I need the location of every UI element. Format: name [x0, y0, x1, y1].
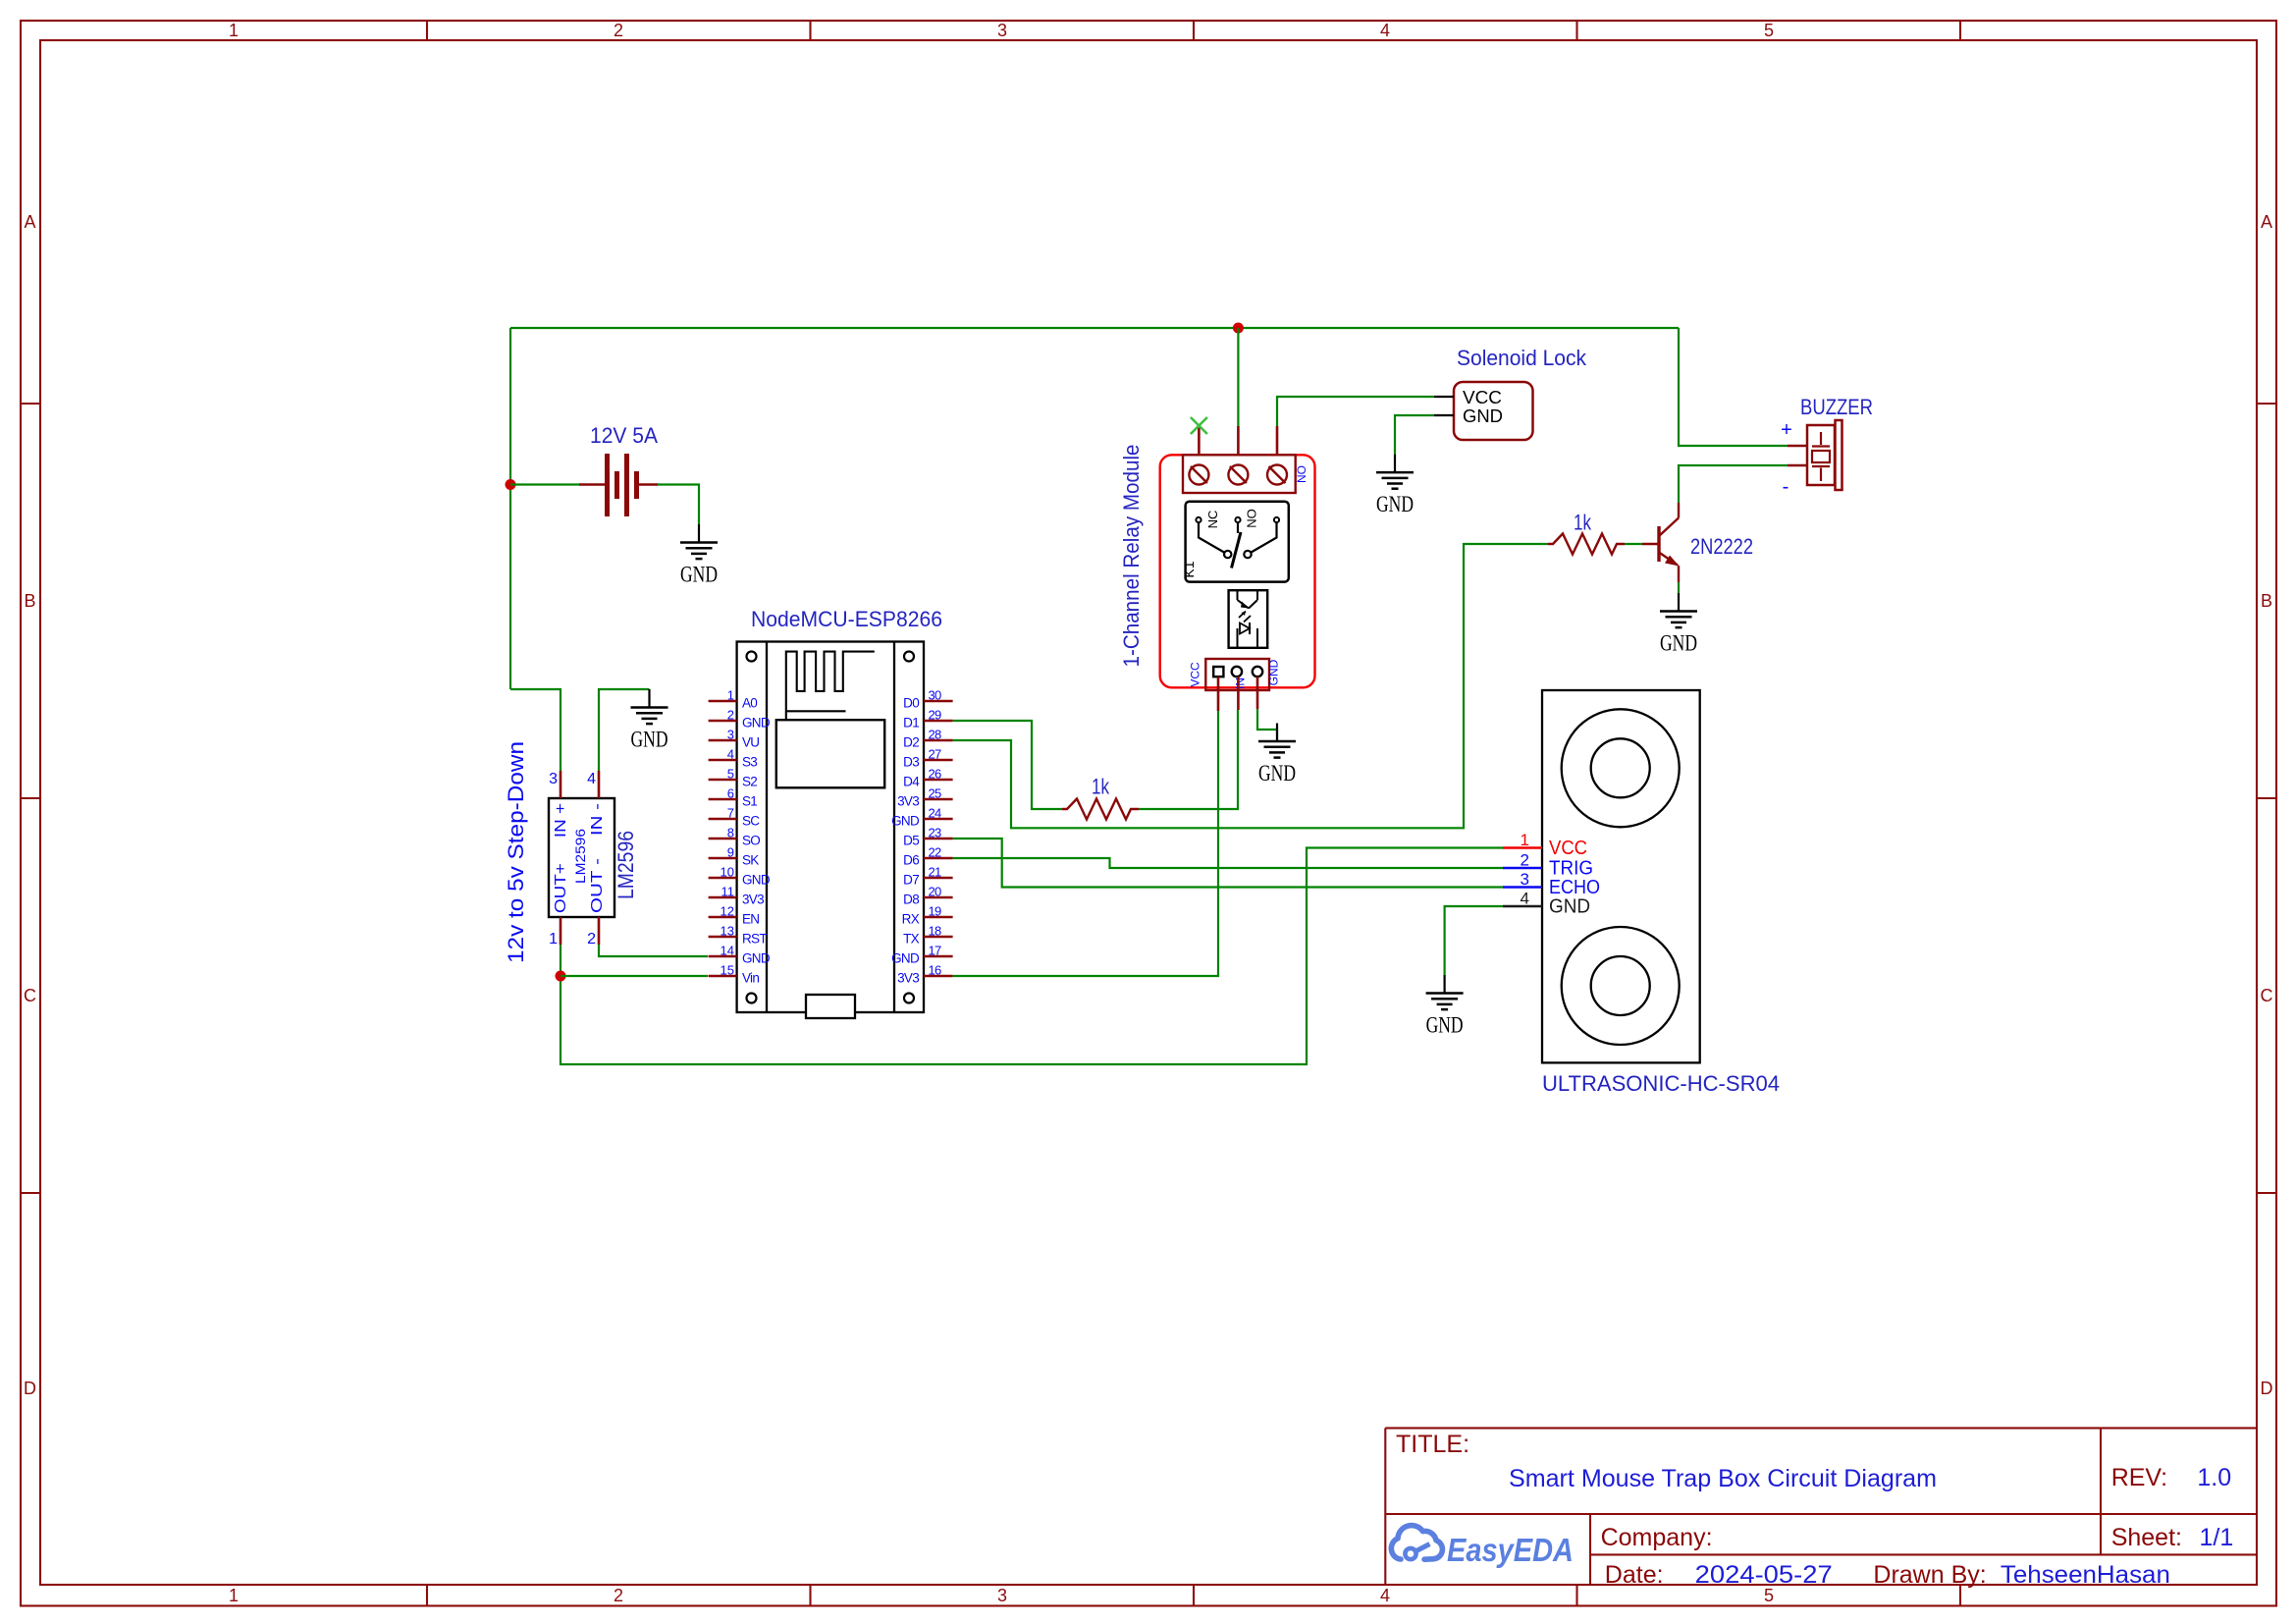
wire LM2596 OUT- to NodeMCU GND: [599, 945, 708, 956]
svg-text:30: 30: [929, 688, 942, 703]
svg-text:S3: S3: [742, 755, 757, 770]
svg-text:26: 26: [929, 767, 942, 782]
svg-text:28: 28: [929, 728, 942, 742]
wire buzzer - to collector: [1679, 465, 1788, 503]
junction battery +: [506, 479, 516, 490]
U1 pin 28 D2: [903, 728, 952, 750]
svg-text:3: 3: [997, 1586, 1007, 1605]
svg-text:C: C: [2261, 986, 2273, 1005]
svg-text:12v to 5v Step-Down: 12v to 5v Step-Down: [504, 741, 528, 963]
svg-text:2N2222: 2N2222: [1690, 534, 1753, 559]
svg-text:Solenoid Lock: Solenoid Lock: [1457, 346, 1587, 370]
svg-text:16: 16: [929, 963, 942, 978]
svg-text:4: 4: [1521, 890, 1529, 908]
svg-text:3V3: 3V3: [897, 794, 919, 809]
U1 pin 26 D4: [903, 767, 952, 789]
svg-text:1: 1: [727, 688, 734, 703]
ground ultrasonic: [1426, 975, 1464, 1038]
U1 pin 9 SK: [709, 845, 760, 868]
wire D1 to R1: [953, 721, 1062, 809]
svg-text:5: 5: [727, 767, 734, 782]
buzzer LS1: [1781, 419, 1842, 498]
svg-text:2: 2: [614, 1586, 623, 1605]
U1 pin 12 EN: [709, 904, 760, 927]
svg-text:D4: D4: [903, 775, 920, 789]
no-connect X: [1191, 417, 1207, 434]
svg-text:GND: GND: [1660, 631, 1697, 656]
svg-text:20: 20: [929, 885, 942, 899]
transistor Q1 2N2222: [1642, 503, 1753, 582]
ground transistor: [1660, 593, 1697, 656]
svg-text:2: 2: [1521, 851, 1529, 870]
svg-text:NO: NO: [1295, 465, 1308, 483]
svg-text:22: 22: [929, 845, 942, 860]
svg-text:12: 12: [721, 904, 734, 919]
relay input header: [1189, 659, 1281, 690]
junction 5V Vin: [556, 971, 566, 982]
svg-text:1k: 1k: [1092, 775, 1110, 799]
svg-text:GND: GND: [631, 728, 668, 752]
U1 pin 15 Vin: [709, 963, 760, 986]
svg-text:B: B: [2261, 591, 2272, 611]
svg-text:3: 3: [727, 728, 734, 742]
wire R2 to Q1 base: [1625, 543, 1642, 545]
U1 pin 19 RX: [902, 904, 953, 927]
U1 pin 25 3V3: [897, 786, 953, 809]
relay NC screw stub (no connect): [1198, 426, 1201, 455]
svg-text:LM2596: LM2596: [614, 831, 638, 899]
svg-text:11: 11: [721, 885, 735, 899]
svg-text:B: B: [24, 591, 35, 611]
svg-text:GND: GND: [742, 873, 771, 888]
svg-text:3: 3: [549, 771, 558, 787]
U1 pin 2 GND: [709, 708, 771, 731]
wire emitter to ground: [1678, 582, 1680, 593]
U1 pin 1 A0: [709, 688, 758, 711]
svg-text:+: +: [1781, 419, 1792, 441]
svg-text:D6: D6: [903, 853, 919, 868]
svg-text:RST: RST: [742, 932, 767, 947]
wire 12V to relay COM: [1237, 328, 1239, 426]
svg-text:GND: GND: [742, 716, 771, 731]
svg-text:7: 7: [727, 806, 734, 821]
svg-text:23: 23: [929, 826, 942, 840]
ground LM2596 IN-: [631, 689, 668, 752]
wire D5 to ECHO: [953, 839, 1503, 888]
svg-text:1.0: 1.0: [2197, 1464, 2231, 1491]
svg-text:D8: D8: [903, 893, 919, 907]
svg-text:GND: GND: [1376, 492, 1414, 516]
wire R1 to relay IN: [1139, 710, 1238, 809]
svg-text:NodeMCU-ESP8266: NodeMCU-ESP8266: [751, 607, 942, 631]
svg-text:19: 19: [929, 904, 942, 919]
svg-text:EN: EN: [742, 912, 759, 927]
wire 12V to buzzer +: [1679, 328, 1788, 446]
wire to LM2596 IN+: [510, 689, 561, 771]
svg-text:TehseenHasan: TehseenHasan: [2001, 1561, 2170, 1589]
esp shield box: [776, 720, 884, 787]
svg-text:5: 5: [1764, 21, 1774, 40]
svg-text:VCC: VCC: [1189, 662, 1202, 687]
svg-text:2: 2: [727, 708, 734, 723]
svg-text:1: 1: [549, 931, 558, 947]
relay COM stub: [1237, 426, 1240, 455]
svg-text:GND: GND: [891, 814, 920, 829]
U1 pin 23 D5: [903, 826, 952, 848]
svg-text:2: 2: [614, 21, 623, 40]
LM2596 pin 4: [598, 771, 601, 798]
wire ultrasonic GND to ground: [1445, 906, 1503, 975]
wire D2 to R2: [953, 544, 1548, 828]
U1 pin 7 SC: [709, 806, 761, 829]
wire 3V3 to relay VCC: [953, 711, 1218, 976]
wire battery - to ground: [658, 485, 699, 525]
svg-text:9: 9: [727, 845, 734, 860]
svg-text:25: 25: [929, 786, 942, 801]
relay optocoupler: [1229, 590, 1268, 648]
resistor R1 1k: [1062, 799, 1139, 820]
svg-text:S2: S2: [742, 775, 757, 789]
svg-text:5: 5: [1764, 1586, 1774, 1605]
U1 pin 24 GND: [891, 806, 953, 829]
wire 5V to Vin: [561, 975, 708, 977]
svg-text:24: 24: [929, 806, 942, 821]
svg-text:D1: D1: [903, 716, 919, 731]
U1 pin 8 SO: [709, 826, 761, 848]
relay module box: [1160, 455, 1315, 687]
svg-text:OUT - IN -: OUT - IN -: [589, 803, 606, 913]
svg-text:A: A: [24, 212, 35, 232]
LM2596 pin 2: [598, 917, 601, 945]
svg-text:A0: A0: [742, 696, 757, 711]
U3 pin 2 TRIG: [1503, 867, 1542, 870]
U3 pin 3 ECHO: [1503, 886, 1542, 889]
svg-text:TX: TX: [903, 932, 920, 947]
LM2596 pin 3: [560, 771, 562, 798]
U3 pin 1 VCC: [1503, 846, 1542, 849]
svg-text:GND: GND: [742, 951, 771, 966]
svg-text:GND: GND: [1549, 896, 1590, 918]
svg-text:ULTRASONIC-HC-SR04: ULTRASONIC-HC-SR04: [1542, 1071, 1780, 1096]
svg-text:SC: SC: [742, 814, 760, 829]
svg-text:4: 4: [1380, 21, 1390, 40]
solenoid lock module: [1434, 382, 1533, 440]
svg-text:14: 14: [721, 944, 734, 958]
svg-text:OUT+ IN +: OUT+ IN +: [553, 803, 569, 913]
U1 pin 10 GND: [709, 865, 771, 888]
svg-text:17: 17: [929, 944, 942, 958]
usb tab: [806, 995, 855, 1018]
relay screw terminal block: [1183, 455, 1308, 493]
EasyEDA logo: [1391, 1526, 1574, 1568]
U3 pin 4 GND: [1503, 905, 1542, 908]
wire relay NO to solenoid VCC: [1277, 397, 1434, 426]
svg-text:1: 1: [1521, 831, 1529, 849]
U1 pin 21 D7: [903, 865, 952, 888]
svg-text:IN: IN: [1234, 677, 1248, 689]
U1 pin 18 TX: [903, 924, 952, 947]
microcontroller U1 NodeMCU-ESP8266: [737, 607, 942, 1018]
U1 pin 27 D3: [903, 747, 952, 770]
wire +12V left drop: [509, 328, 511, 689]
U1 pin 17 GND: [891, 944, 953, 966]
svg-text:1: 1: [229, 1586, 239, 1605]
svg-text:1k: 1k: [1574, 511, 1592, 535]
svg-text:C: C: [24, 986, 36, 1005]
junction 12V relay COM: [1233, 323, 1244, 334]
svg-text:Date:: Date:: [1605, 1561, 1664, 1589]
U1 pin 3 VU: [709, 728, 760, 750]
wire LM2596 IN- to ground: [599, 689, 650, 771]
svg-text:12V 5A: 12V 5A: [590, 423, 658, 448]
U1 pin 11 3V3: [709, 885, 765, 907]
svg-text:4: 4: [1380, 1586, 1390, 1605]
svg-text:Company:: Company:: [1601, 1524, 1713, 1551]
U1 pin 20 D8: [903, 885, 952, 907]
relay NO stub: [1276, 426, 1279, 455]
svg-text:D: D: [2261, 1379, 2273, 1398]
svg-text:S1: S1: [742, 794, 757, 809]
svg-text:8: 8: [727, 826, 734, 840]
svg-text:1-Channel Relay Module: 1-Channel Relay Module: [1119, 445, 1144, 668]
svg-text:10: 10: [721, 865, 734, 880]
svg-text:D3: D3: [903, 755, 919, 770]
title block: [1385, 1428, 2257, 1589]
svg-text:D7: D7: [903, 873, 919, 888]
svg-text:REV:: REV:: [2111, 1464, 2167, 1491]
relay GND stub: [1256, 677, 1259, 709]
svg-text:D5: D5: [903, 834, 919, 848]
svg-text:Smart Mouse Trap Box Circuit D: Smart Mouse Trap Box Circuit Diagram: [1509, 1465, 1937, 1492]
svg-text:GND: GND: [1258, 761, 1296, 785]
svg-text:A: A: [2261, 212, 2272, 232]
svg-text:2024-05-27: 2024-05-27: [1695, 1561, 1833, 1589]
svg-text:18: 18: [929, 924, 942, 939]
svg-text:4: 4: [587, 771, 596, 787]
U1 pin 16 3V3: [897, 963, 953, 986]
battery BT1 12V 5A: [579, 423, 658, 516]
relay IN stub: [1237, 677, 1240, 710]
ultrasonic sensor U3 HC-SR04: [1503, 690, 1780, 1096]
regulator module U2 LM2596: [549, 771, 638, 947]
svg-text:3: 3: [1521, 870, 1529, 889]
LM2596 pin 1: [560, 917, 562, 945]
relay VCC stub: [1217, 677, 1220, 711]
svg-text:Drawn By:: Drawn By:: [1873, 1561, 1986, 1589]
svg-text:Vin: Vin: [742, 971, 759, 986]
U1 pin 22 D6: [903, 845, 952, 868]
ground relay: [1258, 724, 1296, 786]
svg-text:EasyEDA: EasyEDA: [1447, 1532, 1574, 1568]
wire battery +: [510, 483, 579, 485]
svg-text:SK: SK: [742, 853, 759, 868]
svg-text:GND: GND: [1463, 406, 1503, 426]
svg-text:29: 29: [929, 708, 942, 723]
svg-text:K1: K1: [1181, 561, 1197, 577]
resistor R2 1k: [1548, 534, 1625, 555]
svg-text:GND: GND: [1267, 659, 1281, 685]
svg-text:D0: D0: [903, 696, 919, 711]
svg-text:1/1: 1/1: [2200, 1524, 2234, 1551]
wire LM2596 OUT+ 5V: [561, 848, 1503, 1065]
svg-text:6: 6: [727, 786, 734, 801]
svg-text:3: 3: [997, 21, 1007, 40]
svg-text:SO: SO: [742, 834, 760, 848]
svg-text:Sheet:: Sheet:: [2111, 1524, 2182, 1551]
svg-text:3V3: 3V3: [742, 893, 764, 907]
svg-text:1: 1: [229, 21, 239, 40]
U1 pin 14 GND: [709, 944, 771, 966]
svg-text:4: 4: [727, 747, 734, 762]
svg-text:D2: D2: [903, 735, 919, 750]
U1 pin 4 S3: [709, 747, 758, 770]
U1 pin 13 RST: [709, 924, 768, 947]
wire D6 to TRIG: [953, 858, 1503, 868]
U1 pin 5 S2: [709, 767, 758, 789]
svg-text:NO: NO: [1245, 509, 1259, 528]
wire relay GND to ground: [1257, 709, 1277, 741]
antenna meander: [786, 652, 875, 721]
svg-text:3V3: 3V3: [897, 971, 919, 986]
svg-text:GND: GND: [680, 563, 718, 587]
svg-text:-: -: [1783, 476, 1789, 498]
svg-text:13: 13: [721, 924, 734, 939]
svg-text:D: D: [24, 1379, 36, 1398]
U1 pin 29 D1: [903, 708, 952, 731]
U1 pin 30 D0: [903, 688, 952, 711]
svg-text:BUZZER: BUZZER: [1800, 395, 1873, 419]
svg-text:GND: GND: [891, 951, 920, 966]
relay K1: [1181, 502, 1289, 582]
svg-text:GND: GND: [1426, 1013, 1464, 1038]
U1 pin 6 S1: [709, 786, 758, 809]
svg-text:VU: VU: [742, 735, 759, 750]
wire solenoid GND to ground: [1395, 415, 1434, 455]
wire +12V top rail: [510, 327, 1679, 329]
svg-text:2: 2: [587, 931, 596, 947]
svg-text:27: 27: [929, 747, 942, 762]
svg-text:15: 15: [721, 963, 734, 978]
svg-text:LM2596: LM2596: [572, 829, 588, 884]
ground battery: [680, 524, 718, 587]
ground solenoid: [1376, 455, 1414, 516]
svg-text:TITLE:: TITLE:: [1396, 1431, 1469, 1458]
svg-text:21: 21: [929, 865, 942, 880]
svg-text:NC: NC: [1205, 511, 1220, 529]
svg-text:VCC: VCC: [1463, 388, 1502, 407]
svg-text:RX: RX: [902, 912, 920, 927]
svg-text:VCC: VCC: [1549, 838, 1587, 859]
